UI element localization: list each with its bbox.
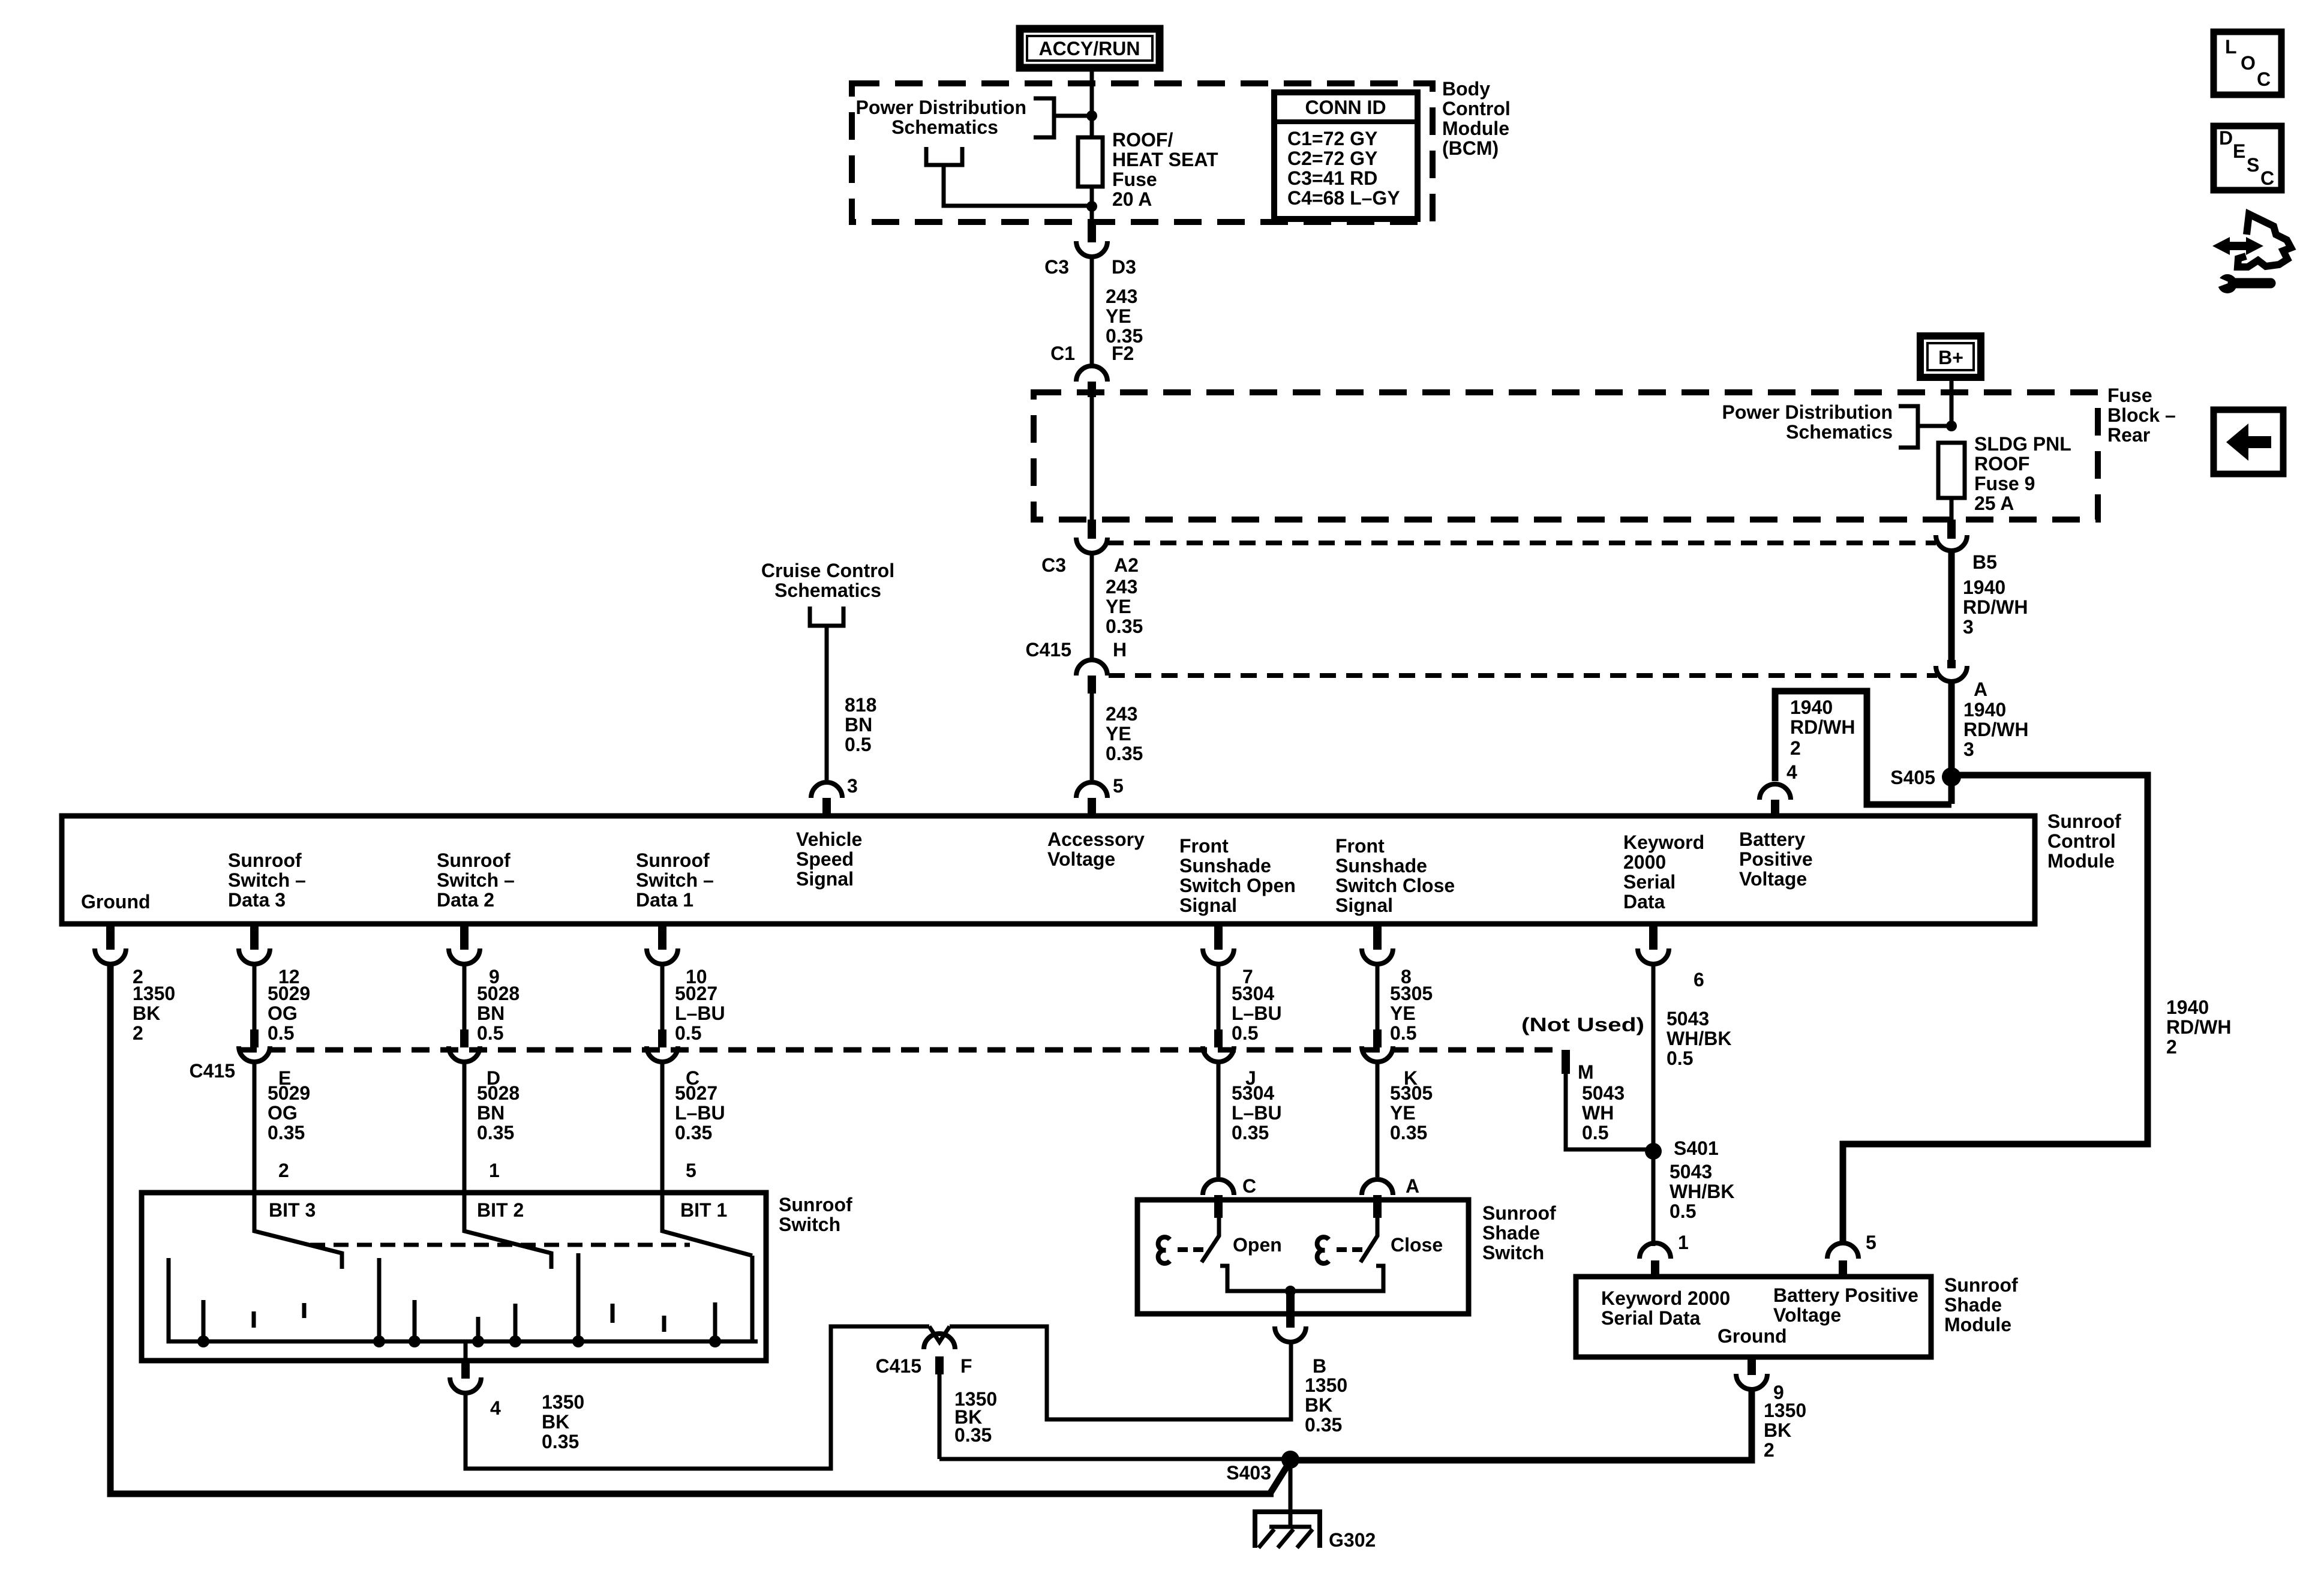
connector C3 dashed line — [1107, 541, 1936, 545]
svg-text:Sunroof: Sunroof — [779, 1194, 852, 1215]
svg-text:5305: 5305 — [1390, 983, 1433, 1004]
svg-text:Voltage: Voltage — [1047, 848, 1115, 870]
svg-text:Signal: Signal — [1335, 894, 1393, 916]
svg-text:Fuse: Fuse — [2107, 385, 2152, 406]
wire 5029 OG 0.5 — [253, 965, 257, 1029]
pin 2 ground — [95, 924, 143, 987]
svg-text:Keyword 2000: Keyword 2000 — [1601, 1287, 1730, 1309]
svg-text:5: 5 — [686, 1160, 696, 1181]
node junction at fuse top — [1086, 110, 1097, 121]
label Body Control Module (BCM) — [1442, 78, 1511, 159]
svg-text:Sunroof: Sunroof — [2047, 810, 2121, 832]
svg-text:2000: 2000 — [1623, 851, 1666, 873]
svg-text:Battery: Battery — [1739, 828, 1805, 850]
splice S405 — [1942, 767, 1961, 786]
connector C415 H — [1026, 639, 1127, 694]
svg-text:5304: 5304 — [1232, 1082, 1274, 1104]
svg-text:O: O — [2241, 52, 2256, 74]
wire 818 BN 0.5 — [825, 626, 829, 780]
wire 5027 L-BU 0.5 — [660, 965, 665, 1029]
svg-text:5043: 5043 — [1582, 1082, 1625, 1104]
pin 7 sunshade open — [1203, 924, 1253, 987]
svg-text:C1: C1 — [1050, 343, 1075, 364]
label Sunroof Control Module — [2047, 810, 2121, 872]
svg-text:S405: S405 — [1890, 767, 1935, 788]
label ROOF/HEAT SEAT Fuse 20 A — [1112, 129, 1218, 210]
svg-text:Module: Module — [1944, 1314, 2011, 1335]
bracket to power distribution schematics (BCM) — [1034, 98, 1054, 137]
svg-text:CONN ID: CONN ID — [1305, 97, 1386, 118]
svg-text:Ground: Ground — [81, 891, 151, 912]
wire 5028 BN 0.5 — [463, 965, 467, 1029]
switch mechanical link dashed — [310, 1243, 690, 1247]
Sunroof Shade Switch box — [1137, 1200, 1469, 1314]
svg-text:C3=41 RD: C3=41 RD — [1287, 167, 1377, 189]
svg-text:5043: 5043 — [1670, 1161, 1712, 1182]
svg-text:6: 6 — [1694, 969, 1704, 990]
svg-text:Sunroof: Sunroof — [1482, 1202, 1556, 1224]
svg-text:25 A: 25 A — [1974, 493, 2014, 514]
pin 5 battery positive — [1827, 1243, 1858, 1277]
svg-text:YE: YE — [1106, 596, 1131, 617]
svg-text:0.5: 0.5 — [675, 1022, 701, 1044]
svg-text:C2=72 GY: C2=72 GY — [1287, 148, 1377, 169]
power symbol B+ — [1920, 336, 1981, 377]
connector C1 F2 — [1050, 343, 1134, 397]
svg-text:OG: OG — [268, 1102, 298, 1124]
pin 3 vehicle speed signal — [811, 782, 842, 817]
svg-text:H: H — [1113, 639, 1127, 661]
svg-text:0.5: 0.5 — [268, 1022, 294, 1044]
svg-text:BN: BN — [845, 714, 872, 736]
svg-text:ROOF: ROOF — [1974, 453, 2029, 475]
wire S405 hook to pin 4 — [1775, 691, 1951, 804]
svg-text:SLDG PNL: SLDG PNL — [1974, 433, 2071, 455]
icon DESC box — [2214, 126, 2281, 190]
svg-text:C: C — [2257, 68, 2271, 90]
svg-text:0.35: 0.35 — [1232, 1122, 1269, 1143]
svg-text:0.35: 0.35 — [268, 1122, 305, 1143]
svg-text:RD/WH: RD/WH — [1963, 719, 2028, 740]
svg-text:Vehicle: Vehicle — [796, 828, 862, 850]
svg-text:Block –: Block – — [2107, 404, 2176, 426]
svg-text:0.35: 0.35 — [954, 1424, 992, 1446]
svg-text:1940: 1940 — [2166, 996, 2209, 1018]
svg-text:D3: D3 — [1112, 256, 1136, 278]
svg-text:C415: C415 — [1026, 639, 1072, 661]
svg-text:1940: 1940 — [1963, 699, 2006, 721]
bracket to power distribution (fuse block) — [1899, 406, 1918, 448]
svg-text:Schematics: Schematics — [891, 116, 998, 138]
svg-text:ACCY/RUN: ACCY/RUN — [1039, 38, 1140, 59]
label Vehicle Speed Signal — [796, 828, 862, 890]
pin 8 sunshade close — [1362, 924, 1412, 987]
contact post f — [476, 1317, 481, 1341]
svg-text:818: 818 — [845, 694, 876, 716]
svg-text:YE: YE — [1106, 723, 1131, 745]
svg-text:C415: C415 — [190, 1060, 236, 1082]
svg-text:RD/WH: RD/WH — [2166, 1016, 2231, 1038]
pin 1 keyword serial data — [1640, 1243, 1671, 1277]
svg-text:Sunroof: Sunroof — [228, 849, 302, 871]
svg-text:WH/BK: WH/BK — [1667, 1028, 1731, 1049]
contact post b — [252, 1311, 256, 1328]
label Keyword 2000 Serial Data — [1623, 831, 1704, 912]
svg-text:Power Distribution: Power Distribution — [856, 97, 1026, 118]
svg-text:Open: Open — [1233, 1234, 1282, 1256]
svg-text:A2: A2 — [1114, 554, 1139, 576]
wire bracket link to B+ wire — [1918, 424, 1951, 428]
contact post a — [202, 1300, 206, 1341]
close switch blade — [1361, 1217, 1377, 1262]
wire 5043 WH/BK 0.5 — [1652, 965, 1656, 1146]
wire bracket2 L-link — [944, 165, 1092, 206]
svg-text:0.35: 0.35 — [1305, 1414, 1342, 1436]
svg-text:Front: Front — [1179, 835, 1229, 857]
label Front Sunshade Switch Open Signal — [1179, 835, 1296, 916]
svg-text:5043: 5043 — [1667, 1008, 1709, 1029]
wire 1940 RD/WH 3 lower — [1948, 683, 1955, 804]
pin B shade switch — [1275, 1291, 1326, 1377]
connector C3 D3 — [1044, 222, 1136, 278]
wire 5305 YE 0.35 — [1376, 1063, 1380, 1177]
wire 1350 BK 0.35 below F — [938, 1374, 942, 1459]
open switch output — [1220, 1266, 1287, 1291]
svg-text:Data 2: Data 2 — [437, 889, 494, 911]
svg-text:Keyword: Keyword — [1623, 831, 1704, 853]
svg-text:BIT 1: BIT 1 — [680, 1199, 727, 1221]
pin 5 accessory voltage — [1076, 782, 1107, 817]
svg-text:4: 4 — [490, 1397, 501, 1419]
label Cruise Control Schematics — [761, 560, 894, 601]
svg-text:Body: Body — [1442, 78, 1490, 100]
svg-text:Serial: Serial — [1623, 871, 1676, 893]
svg-text:B5: B5 — [1972, 551, 1997, 573]
svg-text:BK: BK — [1764, 1419, 1791, 1441]
svg-text:0.35: 0.35 — [542, 1431, 579, 1452]
wire 5043 WH/BK 0.5 to shade module — [1652, 1151, 1656, 1246]
svg-text:D: D — [2219, 127, 2233, 149]
svg-text:0.5: 0.5 — [477, 1022, 503, 1044]
svg-text:Rear: Rear — [2107, 424, 2150, 446]
svg-text:BK: BK — [542, 1411, 569, 1433]
svg-text:243: 243 — [1106, 703, 1137, 725]
svg-text:1350: 1350 — [1305, 1374, 1347, 1396]
wire 5305 YE 0.5 — [1376, 965, 1380, 1029]
svg-text:Schematics: Schematics — [774, 580, 881, 601]
svg-text:Voltage: Voltage — [1773, 1304, 1841, 1326]
fuse SLDG PNL ROOF Fuse 9 — [1938, 443, 1965, 498]
wire 5027 L-BU 0.35 — [660, 1063, 665, 1193]
svg-text:Accessory: Accessory — [1047, 828, 1145, 850]
svg-text:WH/BK: WH/BK — [1670, 1181, 1734, 1202]
contact post e — [413, 1300, 417, 1341]
svg-text:F: F — [960, 1355, 972, 1377]
label Sunroof Switch Data 2 — [437, 849, 515, 911]
svg-text:Data 1: Data 1 — [636, 889, 693, 911]
label Sunroof Shade Module — [1944, 1274, 2018, 1335]
wire fuse to BCM edge — [1090, 187, 1094, 222]
svg-text:L–BU: L–BU — [675, 1102, 725, 1124]
svg-text:5028: 5028 — [477, 983, 520, 1004]
svg-text:20 A: 20 A — [1112, 188, 1152, 210]
svg-text:0.5: 0.5 — [1390, 1022, 1416, 1044]
svg-text:ROOF/: ROOF/ — [1112, 129, 1173, 151]
svg-text:Voltage: Voltage — [1739, 868, 1807, 890]
svg-text:1940: 1940 — [1963, 577, 2005, 598]
svg-text:Signal: Signal — [796, 868, 854, 890]
svg-text:Speed: Speed — [796, 848, 854, 870]
svg-text:3: 3 — [847, 775, 858, 797]
svg-text:BN: BN — [477, 1102, 505, 1124]
svg-text:2: 2 — [278, 1160, 289, 1181]
svg-text:0.35: 0.35 — [477, 1122, 514, 1143]
svg-text:0.5: 0.5 — [1670, 1200, 1696, 1222]
svg-text:0.5: 0.5 — [1232, 1022, 1258, 1044]
svg-text:0.5: 0.5 — [1667, 1047, 1693, 1069]
connector C415 J — [1203, 1029, 1256, 1089]
contact post k — [713, 1302, 717, 1341]
svg-text:Switch Open: Switch Open — [1179, 875, 1296, 896]
label SLDG PNL ROOF Fuse 9 25 A — [1974, 433, 2071, 514]
svg-text:Sunroof: Sunroof — [1944, 1274, 2018, 1296]
label Sunroof Shade Switch — [1482, 1202, 1556, 1263]
svg-text:M: M — [1578, 1061, 1594, 1083]
pin 12 data 3 — [239, 924, 300, 987]
icon double arrow with part outline — [2212, 214, 2291, 267]
svg-text:C1=72 GY: C1=72 GY — [1287, 128, 1377, 149]
svg-text:Cruise Control: Cruise Control — [761, 560, 894, 581]
close switch contact — [1317, 1237, 1329, 1263]
icon wrench — [2214, 274, 2271, 293]
pin A shade switch — [1362, 1179, 1393, 1218]
svg-text:L: L — [2225, 36, 2237, 58]
svg-text:BN: BN — [477, 1002, 505, 1024]
svg-text:2: 2 — [1790, 737, 1801, 759]
svg-text:Module: Module — [1442, 118, 1509, 139]
open switch blade — [1202, 1217, 1219, 1262]
wire 243 YE 0.35 middle — [1090, 554, 1094, 660]
svg-text:Shade: Shade — [1482, 1222, 1540, 1244]
svg-text:Serial Data: Serial Data — [1601, 1307, 1701, 1329]
BIT1 blade — [662, 1193, 752, 1256]
svg-text:L–BU: L–BU — [675, 1002, 725, 1024]
connector C3 A2 — [1041, 520, 1139, 576]
label Accessory Voltage — [1047, 828, 1145, 870]
svg-text:Switch –: Switch – — [228, 869, 306, 891]
open switch link dashes — [1178, 1247, 1188, 1252]
svg-text:243: 243 — [1106, 576, 1137, 598]
svg-text:BIT 2: BIT 2 — [477, 1199, 524, 1221]
svg-text:5304: 5304 — [1232, 983, 1274, 1004]
wire 5304 L-BU 0.35 — [1217, 1063, 1221, 1177]
svg-text:F2: F2 — [1112, 343, 1134, 364]
label Sunroof Switch Data 1 — [636, 849, 714, 911]
contact post h — [577, 1253, 581, 1341]
svg-text:3: 3 — [1963, 616, 1974, 638]
label Fuse Block Rear — [2107, 385, 2176, 446]
svg-text:Power Distribution: Power Distribution — [1722, 401, 1893, 423]
svg-text:5029: 5029 — [268, 1082, 310, 1104]
svg-text:S403: S403 — [1226, 1462, 1271, 1484]
svg-text:BK: BK — [133, 1002, 160, 1024]
wire C415 F branch to shade switch B — [950, 1326, 1291, 1419]
svg-text:YE: YE — [1106, 305, 1131, 327]
svg-text:E: E — [2233, 140, 2245, 162]
svg-text:YE: YE — [1390, 1002, 1416, 1024]
pin 6 keyword 2000 — [1638, 924, 1704, 990]
svg-text:4: 4 — [1786, 761, 1797, 783]
svg-text:OG: OG — [268, 1002, 298, 1024]
node junction at fuse bottom — [1086, 201, 1097, 212]
svg-text:C415: C415 — [876, 1355, 922, 1377]
wire 243 YE through fuse block — [1090, 396, 1094, 520]
svg-text:2: 2 — [133, 1022, 143, 1044]
svg-text:S: S — [2247, 154, 2259, 176]
wire into fuse — [1090, 83, 1094, 137]
connector C415 D — [449, 1029, 500, 1089]
wire ACCY/RUN to BCM — [1090, 71, 1094, 85]
power symbol ACCY/RUN — [1020, 29, 1160, 68]
label Sunroof Switch — [779, 1194, 852, 1235]
switch contact bus — [169, 1258, 758, 1341]
svg-text:WH: WH — [1582, 1102, 1614, 1124]
svg-text:HEAT SEAT: HEAT SEAT — [1112, 149, 1218, 170]
wire 5028 BN 0.35 — [463, 1063, 467, 1193]
icon LOC box — [2214, 32, 2281, 95]
contact post d — [377, 1258, 382, 1341]
svg-text:5: 5 — [1866, 1232, 1876, 1253]
connector B5 — [1936, 520, 1997, 573]
contact post c — [302, 1303, 307, 1318]
label Sunroof Switch Data 3 — [228, 849, 306, 911]
label Battery Positive Voltage (module) — [1773, 1284, 1918, 1326]
svg-text:1350: 1350 — [133, 983, 175, 1004]
wire 1350 BK 2 from pin 9 — [1296, 1391, 1752, 1460]
svg-text:0.35: 0.35 — [1390, 1122, 1427, 1143]
ground G302 — [1255, 1512, 1376, 1551]
wire fuse to box bottom — [1950, 498, 1954, 520]
svg-text:Switch: Switch — [779, 1214, 840, 1235]
svg-text:5029: 5029 — [268, 983, 310, 1004]
BIT2 blade — [464, 1193, 551, 1269]
svg-text:A: A — [1406, 1175, 1419, 1197]
contact post j — [662, 1316, 666, 1332]
Fuse Block Rear dashed box — [1034, 392, 2098, 520]
pin 4 sunroof switch — [464, 1341, 468, 1361]
fuse ROOF/HEAT SEAT 20A — [1078, 137, 1103, 187]
label Battery Positive Voltage — [1739, 828, 1813, 890]
svg-text:Fuse: Fuse — [1112, 169, 1157, 190]
svg-text:G302: G302 — [1329, 1529, 1376, 1551]
wire 243 YE 0.35 lower — [1090, 694, 1094, 780]
Sunroof Shade Module box — [1576, 1277, 1931, 1357]
close switch link dashes — [1337, 1247, 1347, 1252]
svg-text:243: 243 — [1106, 286, 1137, 307]
svg-text:5305: 5305 — [1390, 1082, 1433, 1104]
Sunroof Switch box — [142, 1193, 766, 1361]
Sunroof Control Module box — [62, 816, 2035, 924]
pin 9 data 2 — [449, 924, 500, 987]
svg-text:Sunroof: Sunroof — [437, 849, 511, 871]
svg-text:YE: YE — [1390, 1102, 1416, 1124]
svg-text:(BCM): (BCM) — [1442, 137, 1499, 159]
svg-text:0.35: 0.35 — [675, 1122, 712, 1143]
svg-text:Switch –: Switch – — [437, 869, 515, 891]
svg-text:Data 3: Data 3 — [228, 889, 286, 911]
svg-text:0.35: 0.35 — [1106, 743, 1143, 764]
svg-text:1940: 1940 — [1790, 697, 1833, 718]
connector C415 K — [1362, 1029, 1418, 1089]
svg-text:B+: B+ — [1938, 347, 1963, 368]
contact post i — [611, 1304, 615, 1323]
CONN ID table — [1274, 92, 1418, 219]
wire ground diagonal into S403 — [1271, 1464, 1289, 1493]
svg-text:Fuse 9: Fuse 9 — [1974, 473, 2035, 494]
label Power Distribution Schematics (fuse block) — [1722, 401, 1893, 443]
wire S403 to ground symbol — [1289, 1460, 1293, 1527]
svg-text:Schematics: Schematics — [1786, 421, 1893, 443]
wire bracket link — [1054, 114, 1092, 118]
svg-text:5028: 5028 — [477, 1082, 520, 1104]
svg-text:5: 5 — [1113, 775, 1124, 797]
svg-text:Close: Close — [1391, 1234, 1443, 1256]
svg-text:Battery Positive: Battery Positive — [1773, 1284, 1918, 1306]
contact post l — [750, 1256, 755, 1341]
splice S403 — [1281, 1451, 1299, 1469]
wire B+ into fuse block — [1950, 377, 1954, 427]
Body Control Module dashed box — [852, 83, 1433, 222]
svg-text:Control: Control — [2047, 830, 2116, 852]
BIT3 blade — [254, 1193, 342, 1269]
connector A — [1936, 660, 1987, 700]
contact post g — [514, 1304, 518, 1341]
wire 1350 BK 0.35 from B — [1305, 1374, 1347, 1436]
svg-text:C: C — [1242, 1175, 1256, 1197]
connector C415 F — [876, 1326, 972, 1377]
wire 243 YE 0.35 upper — [1090, 258, 1094, 366]
wire S403 bus — [939, 1457, 1290, 1461]
svg-text:Ground: Ground — [1718, 1325, 1787, 1347]
svg-text:Control: Control — [1442, 98, 1511, 119]
wire 5029 OG 0.35 — [253, 1063, 257, 1193]
splice S401 — [1645, 1143, 1662, 1160]
svg-text:Shade: Shade — [1944, 1294, 2002, 1316]
svg-text:1350: 1350 — [1764, 1400, 1806, 1421]
bracket 2 below schematics text — [926, 147, 962, 165]
node junction on B+ wire — [1946, 421, 1957, 431]
svg-text:Signal: Signal — [1179, 894, 1237, 916]
wire 1350 BK 0.35 pin4 to C415 F — [466, 1326, 929, 1469]
open switch contact — [1158, 1237, 1170, 1263]
label Front Sunshade Switch Close Signal — [1335, 835, 1455, 916]
svg-text:0.5: 0.5 — [845, 734, 871, 755]
svg-text:5027: 5027 — [675, 1082, 717, 1104]
svg-text:5027: 5027 — [675, 983, 717, 1004]
svg-text:RD/WH: RD/WH — [1790, 716, 1855, 738]
svg-text:Module: Module — [2047, 850, 2115, 872]
node shade switch common — [1285, 1286, 1296, 1296]
svg-text:RD/WH: RD/WH — [1963, 596, 2028, 618]
svg-text:Switch: Switch — [1482, 1242, 1544, 1263]
svg-text:BIT 3: BIT 3 — [269, 1199, 316, 1221]
svg-text:C: C — [2260, 167, 2274, 189]
connector C415 dashed line lower — [239, 1047, 1561, 1053]
close switch output — [1294, 1266, 1383, 1291]
svg-text:2: 2 — [2166, 1036, 2177, 1058]
wire 1350 BK 2 ground — [110, 965, 1274, 1494]
label Power Distribution Schematics (BCM) — [856, 97, 1026, 138]
